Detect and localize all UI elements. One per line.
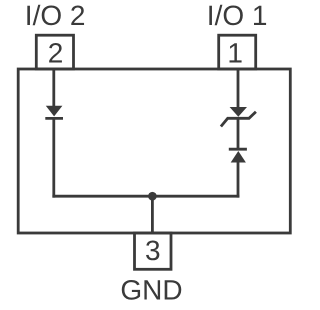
pin 3 terminal box [135,233,172,269]
wire junction to pin3 [151,196,154,233]
zener Z1 triangle [230,107,247,117]
svg-text:2: 2 [48,37,64,68]
pin 2 terminal box [36,35,73,69]
svg-text:3: 3 [145,235,161,266]
svg-text:I/O 2: I/O 2 [25,0,86,31]
IC body outline [18,69,290,233]
diode D1 cathode bar [45,117,63,120]
svg-text:1: 1 [227,37,243,68]
zener Z1 cathode z-bar [221,112,256,127]
wire pin2 to D1 [52,69,55,107]
diode D2 triangle [231,151,246,163]
pin 1 terminal box [219,35,256,69]
svg-text:I/O 1: I/O 1 [207,0,268,31]
junction dot [148,192,157,201]
wire D1 to bottom rail [52,117,55,198]
bottom rail wire [52,195,239,198]
diode D2 cathode bar [229,148,247,151]
svg-text:GND: GND [120,275,182,306]
wire D2 to bottom rail [237,162,240,198]
wire Z1 to D2 [237,118,240,151]
wire pin1 to Z1 [237,69,240,108]
diode D1 triangle [46,106,63,117]
